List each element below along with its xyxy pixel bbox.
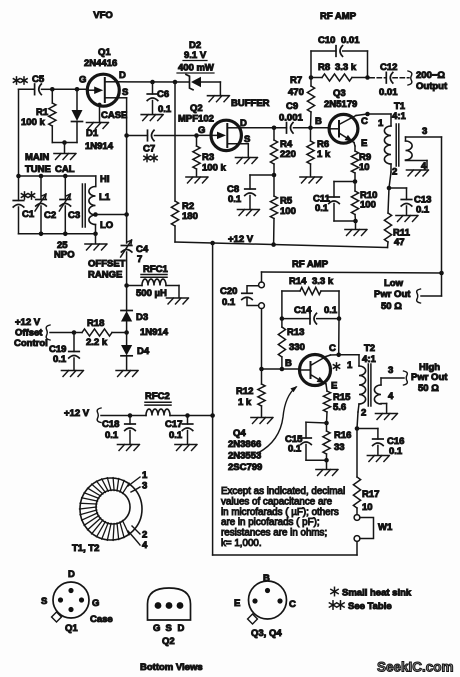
svg-text:k= 1,000.: k= 1,000. xyxy=(221,538,262,549)
svg-text:D4: D4 xyxy=(137,346,150,357)
resistor R12 1k xyxy=(261,369,263,384)
svg-text:180: 180 xyxy=(182,211,198,222)
svg-text:200−Ω: 200−Ω xyxy=(416,70,445,81)
node Q3 collector/T1 xyxy=(365,112,370,117)
svg-text:MAIN: MAIN xyxy=(25,152,49,163)
resistor R13 330 xyxy=(281,319,283,327)
svg-text:LO: LO xyxy=(100,220,113,231)
svg-text:C1: C1 xyxy=(22,209,35,220)
capacitor C15 0.1 xyxy=(306,421,327,424)
svg-text:C: C xyxy=(289,599,296,610)
ground under C6 xyxy=(141,114,162,116)
svg-text:C6: C6 xyxy=(157,89,169,100)
svg-text:0.1: 0.1 xyxy=(324,305,338,316)
svg-text:R8: R8 xyxy=(318,62,330,73)
toroid lead 4 xyxy=(128,531,140,545)
svg-text:400 mW: 400 mW xyxy=(178,63,214,74)
capacitor C5 xyxy=(19,88,35,90)
input terminal top (C20) xyxy=(259,282,265,288)
svg-text:Q2: Q2 xyxy=(190,103,203,114)
capacitor C14 0.1 xyxy=(282,318,310,320)
svg-text:7: 7 xyxy=(137,254,142,265)
svg-text:E: E xyxy=(331,381,337,392)
svg-text:in microfarads ( µF); others: in microfarads ( µF); others xyxy=(221,507,339,518)
svg-text:RFC1: RFC1 xyxy=(143,264,169,275)
svg-text:R3: R3 xyxy=(202,152,214,163)
ground under D2 xyxy=(208,95,229,97)
transistor Q3 2N5179 xyxy=(329,114,358,143)
terminal W1 bottom xyxy=(354,536,360,542)
svg-text:0.1: 0.1 xyxy=(53,354,67,365)
svg-text:100: 100 xyxy=(280,206,296,217)
svg-text:S: S xyxy=(166,623,172,634)
svg-text:2: 2 xyxy=(361,408,366,419)
wire tank bottom bus xyxy=(19,233,96,235)
svg-text:1: 1 xyxy=(378,118,384,129)
svg-text:R12: R12 xyxy=(236,386,253,397)
svg-text:0.1: 0.1 xyxy=(169,430,183,441)
svg-text:T2: T2 xyxy=(364,343,375,354)
svg-text:10: 10 xyxy=(359,162,370,173)
variable capacitor C3 xyxy=(64,176,66,200)
node Q3 base / R6 / R7 xyxy=(308,126,313,131)
svg-text:+12 V: +12 V xyxy=(15,317,41,328)
toroid lead 3 xyxy=(131,487,140,492)
svg-text:2: 2 xyxy=(142,530,147,541)
node base/C20 col xyxy=(259,367,264,372)
svg-text:2SC799: 2SC799 xyxy=(228,462,262,473)
wire left rail from C5 down to tank bus xyxy=(18,89,20,176)
wire tank top bus xyxy=(19,175,96,177)
svg-text:C: C xyxy=(361,116,368,127)
resistor R6 1k xyxy=(310,128,312,141)
legend small heat sink xyxy=(334,587,336,595)
svg-text:Low: Low xyxy=(384,278,404,289)
variable capacitor C4 7pF xyxy=(121,245,132,247)
svg-text:G: G xyxy=(153,623,160,634)
ground under D4 xyxy=(116,370,137,372)
svg-text:0.1: 0.1 xyxy=(288,444,302,455)
svg-text:4: 4 xyxy=(388,391,394,402)
svg-text:0.1: 0.1 xyxy=(416,205,430,216)
svg-text:B: B xyxy=(315,116,322,127)
svg-text:C: C xyxy=(329,343,336,354)
ground T2 pin4 xyxy=(376,413,397,415)
ground under R6 xyxy=(300,176,321,178)
resistor R8 3.3k (feedback) xyxy=(311,77,322,79)
svg-text:1: 1 xyxy=(142,470,148,481)
node R1 top xyxy=(50,87,55,92)
svg-text:100: 100 xyxy=(360,200,376,211)
svg-text:S: S xyxy=(244,134,250,145)
svg-text:HI: HI xyxy=(100,174,110,185)
svg-text:G: G xyxy=(92,598,99,609)
svg-text:+12 V: +12 V xyxy=(64,408,90,419)
node R18/D3/D4 junction xyxy=(124,330,129,335)
svg-text:R5: R5 xyxy=(280,196,293,207)
node C8/R5 junction xyxy=(272,173,277,178)
svg-text:C3: C3 xyxy=(68,210,80,221)
svg-text:C18: C18 xyxy=(102,419,119,430)
svg-text:S: S xyxy=(122,87,128,98)
svg-text:CASE: CASE xyxy=(101,110,127,121)
node C18 top xyxy=(128,413,133,418)
node +12V vertical feed xyxy=(210,413,215,418)
terminal W1 top xyxy=(354,515,360,521)
resistor R14 3.3k xyxy=(282,290,300,292)
svg-text:5.6: 5.6 xyxy=(333,402,346,413)
transistor Q1 2N4416 JFET xyxy=(87,74,119,106)
node C6 top xyxy=(150,80,155,85)
inductor RFC2 xyxy=(146,409,170,415)
svg-text:330: 330 xyxy=(289,342,305,353)
ground under C16 xyxy=(367,455,388,457)
capacitor C20 0.1 xyxy=(247,286,258,293)
toroid core T1,T2 winding illustration xyxy=(80,478,142,540)
svg-text:Pwr Out: Pwr Out xyxy=(411,372,448,383)
svg-text:NPO: NPO xyxy=(54,250,75,261)
node R8/C10/C12/collector xyxy=(365,75,370,80)
svg-text:Q1: Q1 xyxy=(65,623,78,634)
wire lower section top rail xyxy=(262,272,442,273)
svg-text:0.001: 0.001 xyxy=(279,113,303,124)
svg-text:CAL: CAL xyxy=(55,164,75,175)
svg-text:B: B xyxy=(285,358,292,369)
svg-text:0.1: 0.1 xyxy=(105,430,119,441)
legend see table xyxy=(332,601,334,609)
wire LO tap to source column xyxy=(96,214,127,216)
svg-text:4: 4 xyxy=(421,161,427,172)
ground under tank bus xyxy=(85,243,106,245)
svg-text:are in picofarads ( pF);: are in picofarads ( pF); xyxy=(221,517,320,528)
transistor Q2 MPF102 JFET xyxy=(197,134,218,136)
connector brace offset input xyxy=(46,325,50,340)
svg-text:9.1 V: 9.1 V xyxy=(184,50,207,61)
svg-text:SeekIC.com: SeekIC.com xyxy=(377,660,454,675)
svg-text:47: 47 xyxy=(394,237,405,248)
node C14 left xyxy=(280,316,285,321)
svg-text:R7: R7 xyxy=(290,75,302,86)
resistor R17 10 xyxy=(356,429,358,478)
Q1 bottom view circle xyxy=(53,582,89,618)
node Q4 collector xyxy=(336,353,341,358)
Q1 tab xyxy=(52,612,62,622)
inductor RFC1 500uH xyxy=(127,285,142,287)
capacitor C10 0.01 (feedback) xyxy=(310,51,312,78)
arrow from label to Q4 xyxy=(258,387,296,453)
marker ** near C1 xyxy=(24,192,26,199)
svg-text:C5: C5 xyxy=(32,74,45,85)
node R10/C11 bottom xyxy=(353,219,358,224)
ground under C17 xyxy=(175,444,196,446)
svg-text:0.1: 0.1 xyxy=(315,203,329,214)
svg-text:2N4416: 2N4416 xyxy=(84,58,117,69)
marker * near Q4 xyxy=(336,363,338,370)
svg-text:4:1: 4:1 xyxy=(392,111,406,122)
connector brace 200 ohm output xyxy=(408,71,412,85)
svg-text:RF AMP: RF AMP xyxy=(292,259,329,270)
svg-text:500 µH: 500 µH xyxy=(136,288,167,299)
wire Q1 source down xyxy=(118,97,127,99)
toroid lead 1 xyxy=(128,477,140,486)
ground under C18 xyxy=(118,444,139,446)
wire C20 bottom to base xyxy=(261,309,263,369)
node R9/R10/C11 xyxy=(353,179,358,184)
svg-text:1 k: 1 k xyxy=(238,397,252,408)
svg-text:C17: C17 xyxy=(165,419,182,430)
diode D3 1N914 xyxy=(126,286,128,312)
transformer T1 4:1 xyxy=(368,113,392,115)
svg-text:T1, T2: T1, T2 xyxy=(72,543,99,554)
svg-text:1N914: 1N914 xyxy=(140,327,169,338)
svg-text:0.01: 0.01 xyxy=(379,87,398,98)
svg-text:E: E xyxy=(234,598,240,609)
ground under C8 xyxy=(238,209,259,211)
node source/C7 junction xyxy=(124,133,129,138)
svg-text:C2: C2 xyxy=(44,210,56,221)
svg-text:MPF102: MPF102 xyxy=(178,114,214,125)
svg-text:C7: C7 xyxy=(143,144,155,155)
svg-text:G: G xyxy=(79,75,86,86)
svg-text:RF AMP: RF AMP xyxy=(320,11,357,22)
Q2 bottom view package xyxy=(148,588,191,620)
svg-text:E: E xyxy=(361,138,367,149)
wire collector to T2 xyxy=(326,355,331,357)
wire bottom frame xyxy=(356,541,358,555)
node +12V to lower feed xyxy=(210,241,215,246)
svg-text:50 Ω: 50 Ω xyxy=(381,301,402,312)
input terminal bottom (C20) xyxy=(259,303,265,309)
diode D1 1N914 xyxy=(76,89,78,110)
svg-text:G: G xyxy=(198,125,205,136)
svg-text:Except as indicated, decimal: Except as indicated, decimal xyxy=(221,486,345,497)
resistor R11 47 xyxy=(388,188,389,213)
diode D4 xyxy=(126,333,128,346)
ground T1 pin4 xyxy=(407,169,428,171)
resistor R5 100 xyxy=(273,175,275,196)
resistor R2 180 xyxy=(174,82,176,201)
inductor L1 with HI/LO taps xyxy=(95,176,97,187)
node R15/R16/C15 xyxy=(324,421,329,426)
svg-text:Case: Case xyxy=(90,614,113,625)
wire Q4 emitter xyxy=(326,384,327,391)
ground under R1/D1 xyxy=(54,153,75,155)
svg-text:D: D xyxy=(178,623,185,634)
svg-text:W1: W1 xyxy=(378,522,393,533)
resistor R3 100k xyxy=(196,136,198,147)
svg-text:0.01: 0.01 xyxy=(341,35,360,46)
svg-text:resistances are in ohms;: resistances are in ohms; xyxy=(221,528,327,539)
ground under RFC1 xyxy=(167,297,188,299)
variable capacitor C2 xyxy=(40,176,42,200)
svg-text:2N3866: 2N3866 xyxy=(228,439,261,450)
connector brace high power out xyxy=(404,371,408,385)
node R4 top xyxy=(272,126,277,131)
svg-text:3.3 k: 3.3 k xyxy=(335,62,357,73)
resistor R4 220 xyxy=(273,128,275,140)
svg-text:R17: R17 xyxy=(362,489,379,500)
svg-text:0.1: 0.1 xyxy=(222,297,236,308)
svg-text:values of capacitance are: values of capacitance are xyxy=(221,496,333,507)
svg-text:B: B xyxy=(263,573,270,584)
node C14 right xyxy=(337,316,342,321)
svg-text:Control: Control xyxy=(14,338,48,349)
node R3/Q2 gate xyxy=(194,133,199,138)
wire C14 right to collector xyxy=(338,319,340,355)
wire base line xyxy=(262,368,300,370)
ground under R10 xyxy=(345,229,366,231)
svg-text:D: D xyxy=(119,70,126,81)
svg-text:See Table: See Table xyxy=(348,601,392,612)
capacitor C16 0.1 xyxy=(357,428,378,430)
Q2 source ground xyxy=(247,144,249,157)
capacitor C13 0.1 xyxy=(389,187,407,189)
connector brace low power out xyxy=(417,289,421,303)
node base/R13 col xyxy=(280,367,285,372)
ground under R16 xyxy=(316,469,337,471)
resistor R9 10 xyxy=(354,143,355,147)
svg-text:Offset: Offset xyxy=(15,328,43,339)
capacitor C17 0.1 xyxy=(187,416,189,425)
capacitor C1 (fixed) xyxy=(18,176,20,201)
wire R1/D1 bottom to ground xyxy=(52,142,77,144)
ground under R3 xyxy=(186,176,207,178)
svg-text:3.3 k: 3.3 k xyxy=(312,276,334,287)
svg-text:4: 4 xyxy=(142,540,148,551)
svg-text:D3: D3 xyxy=(136,312,148,323)
svg-text:D: D xyxy=(68,569,75,580)
svg-text:C12: C12 xyxy=(380,62,397,73)
Q1 case lead and ground xyxy=(97,103,101,107)
node C19 top xyxy=(72,330,77,335)
svg-text:BUFFER: BUFFER xyxy=(231,98,270,109)
jumper W1 xyxy=(360,518,374,539)
node R2/D2 branch xyxy=(173,80,178,85)
svg-text:Q3, Q4: Q3, Q4 xyxy=(251,628,282,639)
wire +12V feed with RFC2 xyxy=(101,415,146,417)
svg-text:R13: R13 xyxy=(287,327,304,338)
svg-text:OFFSET: OFFSET xyxy=(88,259,126,270)
wire T1 pin3 to low output rail xyxy=(441,137,443,273)
svg-text:Bottom Views: Bottom Views xyxy=(140,662,203,673)
svg-text:Pwr Out: Pwr Out xyxy=(374,289,411,300)
svg-text:RANGE: RANGE xyxy=(88,270,122,281)
capacitor C18 0.1 xyxy=(129,416,131,425)
ground under C13 xyxy=(396,215,417,217)
capacitor C7 (series) xyxy=(127,135,148,137)
node R7/R8/C10 left xyxy=(309,75,314,80)
svg-text:3: 3 xyxy=(422,126,427,137)
resistor R1 100k xyxy=(51,89,53,103)
svg-text:1N914: 1N914 xyxy=(85,141,114,152)
svg-text:220: 220 xyxy=(280,149,296,160)
node R16/C15 bottom xyxy=(324,458,329,463)
resistor R16 33 xyxy=(326,423,328,431)
wire gate bus to Q1 xyxy=(52,88,87,90)
Q3Q4 tab xyxy=(248,614,258,624)
connector brace +12V lower xyxy=(97,408,101,423)
svg-text:2.2 k: 2.2 k xyxy=(86,337,108,348)
svg-text:2N5179: 2N5179 xyxy=(324,99,357,110)
ground under C19 xyxy=(62,370,83,372)
svg-text:33: 33 xyxy=(334,442,345,453)
resistor R7 470 xyxy=(310,78,312,87)
svg-text:R16: R16 xyxy=(334,430,351,441)
node L1 LO tap xyxy=(93,212,98,217)
capacitor C19 0.1 xyxy=(73,333,75,352)
svg-text:C20: C20 xyxy=(220,286,237,297)
wire offset input xyxy=(50,332,74,334)
svg-text:C9: C9 xyxy=(286,101,298,112)
svg-text:0.1: 0.1 xyxy=(389,446,403,457)
svg-text:+12 V: +12 V xyxy=(228,234,254,245)
capacitor C6 0.1 xyxy=(152,82,154,94)
svg-text:R18: R18 xyxy=(87,318,104,329)
svg-text:4:1: 4:1 xyxy=(362,354,376,365)
svg-text:D1: D1 xyxy=(86,128,99,139)
svg-text:TUNE: TUNE xyxy=(25,164,51,175)
svg-text:3: 3 xyxy=(142,481,147,492)
node RFC1 junction xyxy=(124,283,129,288)
svg-text:2: 2 xyxy=(392,167,397,178)
svg-text:Q2: Q2 xyxy=(162,636,175,647)
svg-text:C14: C14 xyxy=(294,305,312,316)
resistor R18 2.2k xyxy=(74,332,82,334)
node D1 top xyxy=(75,87,80,92)
svg-text:0.1: 0.1 xyxy=(158,104,172,115)
capacitor C8 0.1 xyxy=(250,174,274,176)
transformer T2 4:1 xyxy=(358,355,360,366)
svg-text:0.1: 0.1 xyxy=(228,194,242,205)
capacitor C12 0.01 (output, dashed leads) xyxy=(370,77,386,79)
svg-text:Small heat sink: Small heat sink xyxy=(342,588,412,599)
svg-text:10: 10 xyxy=(362,502,373,513)
node C17 top xyxy=(185,413,190,418)
svg-text:VFO: VFO xyxy=(93,10,113,21)
node T1 bottom / R11 / C13 xyxy=(387,186,392,191)
svg-text:3: 3 xyxy=(388,365,393,376)
svg-text:100 k: 100 k xyxy=(202,163,226,174)
capacitor C9 0.001 xyxy=(241,127,287,129)
wire +12V vertical xyxy=(212,243,214,416)
svg-text:100 k: 100 k xyxy=(21,117,45,128)
svg-text:Output: Output xyxy=(416,81,448,92)
node low power out xyxy=(439,271,444,276)
svg-text:Q3: Q3 xyxy=(333,88,346,99)
marker ** near C5 xyxy=(16,77,18,84)
svg-text:C10: C10 xyxy=(318,35,335,46)
toroid lead 2 xyxy=(132,526,140,534)
svg-text:R14: R14 xyxy=(289,276,307,287)
node T2 bottom / C16 / R17 xyxy=(355,426,360,431)
transistor Q4 power NPN xyxy=(300,355,331,386)
marker ** near C7 xyxy=(146,154,148,161)
svg-text:RFC2: RFC2 xyxy=(145,391,170,402)
ground under R12 xyxy=(251,417,272,419)
svg-text:L1: L1 xyxy=(99,192,111,203)
svg-text:1: 1 xyxy=(347,360,353,371)
svg-text:Q4: Q4 xyxy=(233,428,246,439)
node R5 bottom on rail xyxy=(271,242,276,247)
svg-text:S: S xyxy=(41,596,47,607)
Q3 Q4 bottom view circle xyxy=(249,581,287,619)
wire +12V rail (upper) xyxy=(175,242,388,248)
resistor R10 100 xyxy=(354,182,356,192)
wire low out tap xyxy=(441,273,443,296)
svg-text:1 k: 1 k xyxy=(317,149,331,160)
wire Q1 drain bus xyxy=(117,81,189,83)
svg-text:470: 470 xyxy=(288,87,304,98)
